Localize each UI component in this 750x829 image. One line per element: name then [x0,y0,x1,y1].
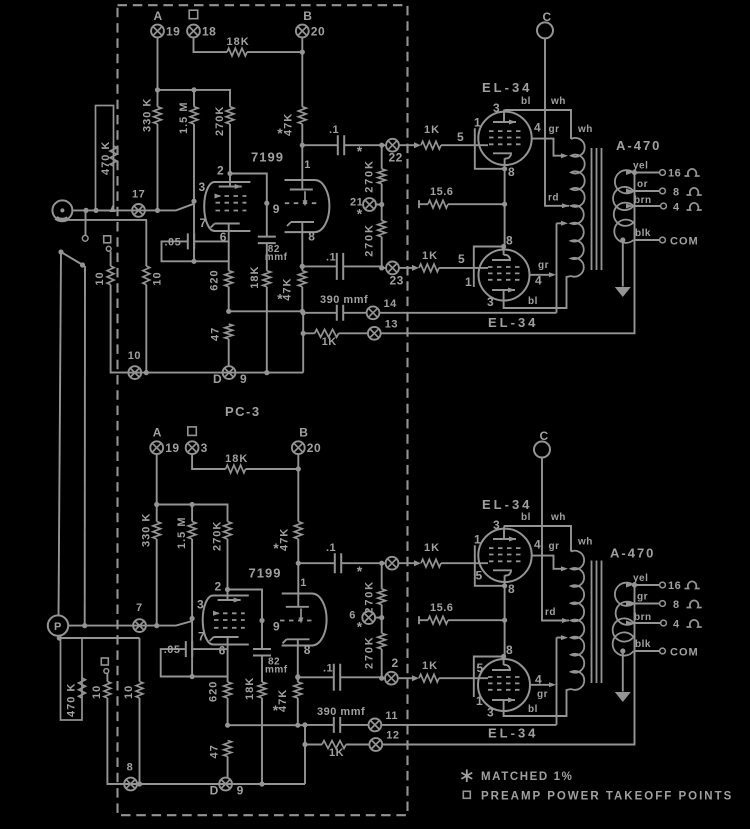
svg-text:10: 10 [91,685,103,699]
wire terminal B down [297,454,299,521]
svg-text:19: 19 [165,441,179,455]
wire switch bus right [84,266,86,626]
svg-text:yel: yel [633,573,648,584]
tube EL-34 (lower) [479,250,530,301]
svg-text:EL-34: EL-34 [482,497,532,512]
svg-text:1: 1 [300,577,307,589]
svg-text:1: 1 [304,159,311,171]
wire 1.5M return [191,621,193,677]
svg-text:.1: .1 [329,124,339,136]
terminal C [534,442,550,458]
svg-text:17: 17 [132,189,145,201]
svg-text:bl: bl [528,296,538,307]
wire 82mmf to 18K [261,656,263,683]
wire terminal-18 to 18K [194,38,228,53]
resistor 47 [225,324,233,339]
svg-text:5: 5 [458,252,465,266]
svg-text:3: 3 [197,598,204,612]
blk tap COM [634,239,660,241]
EL34u plate [493,121,516,123]
wire .05 to cathode [194,240,229,242]
resistor 1K (feedback) [315,329,339,337]
resistor 15.6 [418,616,420,624]
svg-text:gr: gr [537,689,548,700]
EL34l plate [492,289,515,291]
svg-text:1K: 1K [424,124,440,136]
wire cathode bus [228,724,305,726]
wire lower screen to tap (gr) [530,684,553,686]
7199 pentode grid dashes [216,195,247,197]
wire 10L to bus [107,698,124,784]
svg-text:bl: bl [521,96,531,107]
input jack J1 [52,200,72,220]
terminal C [537,22,553,38]
7199 triode plate [286,563,309,607]
preamp takeoff square (top) [189,10,198,19]
EL34l suppressor tie [474,247,504,288]
wire 47 to D terminal [227,757,229,779]
svg-text:7199: 7199 [249,566,282,581]
volume pot 470K box [96,106,114,211]
wire 1.5M top [193,90,195,107]
wire upper screen to tap (gr) [531,556,565,569]
svg-text:270K: 270K [364,580,376,614]
svg-text:1: 1 [465,275,472,289]
svg-text:COM: COM [670,236,699,248]
wire upper plate to primary (bl-wh) [505,110,571,139]
svg-text:3: 3 [201,441,208,455]
svg-text:10: 10 [94,271,106,285]
or tap 8 ohm [634,603,660,605]
wire .1 lower to 23 [340,676,385,679]
tube EL-34 (lower) [478,659,530,711]
capacitor .1 (upper) [298,562,335,564]
preamp takeoff square (input) [104,236,111,243]
resistor 270K (plate) [224,522,232,540]
svg-text:3: 3 [487,295,494,309]
grid input wire [72,204,194,211]
resistor 1K (feedback) [322,741,346,749]
svg-text:8: 8 [304,643,311,657]
capacitor 390mmf [303,312,337,314]
wire cathodes [504,168,506,247]
preamp takeoff square (top) [188,427,197,436]
EL34l cathode [492,255,510,260]
svg-text:5: 5 [457,130,464,144]
wire C to center tap [545,38,569,205]
svg-text:8: 8 [673,599,680,611]
EL34u suppressor tie [475,545,505,586]
svg-text:D: D [213,372,222,386]
svg-text:270K: 270K [212,521,224,551]
svg-text:4: 4 [673,619,680,631]
svg-text:.05: .05 [165,236,182,248]
wire cathode bus [229,310,304,312]
wire A node bus [158,90,231,107]
wire to switch contact [85,210,87,235]
svg-text:620: 620 [209,269,221,290]
wire 23 to 1K [399,267,414,269]
svg-text:2: 2 [217,164,224,178]
svg-text:A-470: A-470 [616,138,661,153]
svg-text:B: B [303,9,312,23]
wire 270K to plate pin2 [229,124,231,174]
svg-text:gr: gr [549,541,560,552]
svg-text:8: 8 [308,230,315,244]
wire 47K* to bus [301,287,303,312]
capacitor 390mmf [305,724,334,726]
EL34u cathode [493,153,511,158]
svg-text:10: 10 [123,685,135,699]
wire ground column [304,725,306,784]
capacitor .1 (lower) [298,676,334,678]
resistor 15.6 [418,200,420,208]
wire 270K to plate pin2 [227,539,229,590]
wire A node bus [157,505,228,522]
svg-text:1: 1 [474,532,481,546]
yel tap 16 ohm [634,584,660,586]
EL34u suppressor tie [475,128,505,169]
svg-text:A: A [154,9,163,23]
resistor 10 (left) [106,674,108,682]
svg-text:7: 7 [136,602,143,614]
svg-text:4: 4 [534,120,541,134]
svg-text:*: * [273,702,279,718]
svg-text:18K: 18K [249,266,261,289]
capacitor .1 (upper) [302,144,338,146]
7199 triode cathode [287,222,314,233]
wire 620 to bus [228,287,230,312]
7199 triode grid dashes [285,202,318,204]
svg-text:wh: wh [550,512,566,523]
svg-text:1K: 1K [424,542,440,554]
resistor 1.5M [190,107,198,124]
svg-text:wh: wh [550,96,566,107]
wire terminal-18 to 18K [192,454,226,469]
EL34l grids [488,266,520,268]
capacitor .05 [161,649,192,676]
svg-text:8: 8 [508,582,515,596]
blk tap COM [634,650,660,652]
svg-text:1: 1 [476,694,483,708]
svg-text:PREAMP POWER TAKEOFF POINTS: PREAMP POWER TAKEOFF POINTS [481,791,733,803]
svg-text:8: 8 [506,234,513,248]
preamp takeoff square (input) [101,658,108,665]
feedback wire [381,173,635,334]
svg-text:gr: gr [549,124,560,135]
svg-text:270K: 270K [364,636,376,670]
7199 triode grid dashes [280,620,315,622]
svg-text:14: 14 [384,298,398,310]
wire C to center tap [542,458,569,621]
7199 triode cathode [283,639,310,646]
svg-text:1: 1 [474,115,481,129]
capacitor .05 [162,241,195,261]
wire terminal A down [156,454,158,504]
wire jack to grid [83,208,88,213]
terminal 23 [386,262,399,275]
svg-text:2: 2 [392,656,399,670]
resistor 47 [224,741,232,757]
svg-text:390 mmf: 390 mmf [320,294,368,306]
wire 21 node [375,605,381,634]
terminal 2 [385,672,398,685]
svg-text:6: 6 [219,644,226,658]
wire 1.5M top [191,505,193,522]
wire 330K top [157,90,159,107]
svg-text:3: 3 [487,706,494,720]
svg-text:EL-34: EL-34 [488,315,538,330]
svg-text:47K: 47K [278,528,290,551]
tube 7199 envelope (triode half) [282,594,327,646]
svg-text:9: 9 [273,202,280,216]
svg-text:47: 47 [210,327,222,341]
svg-text:A: A [153,426,162,440]
svg-text:wh: wh [577,537,593,548]
transformer core [592,148,602,270]
EL34u grids [489,130,521,132]
svg-text:2: 2 [215,580,222,594]
terminal D 9 [219,778,232,791]
svg-text:*: * [357,143,363,159]
svg-text:B: B [299,426,308,440]
svg-text:10: 10 [151,271,163,285]
svg-text:11: 11 [385,710,398,722]
svg-text:270K: 270K [364,159,376,193]
resistor 18K (top) [226,465,246,473]
svg-text:8: 8 [127,762,134,774]
terminal 22 [386,139,399,152]
svg-text:*: * [357,563,363,579]
svg-text:18K: 18K [244,677,256,700]
svg-text:A-470: A-470 [610,546,655,561]
wire 620 to bus [227,698,229,725]
svg-text:rd: rd [545,607,556,618]
wire jack shield [62,219,147,221]
resistor 620 [225,271,233,287]
resistor 47K* (cathode) [294,682,302,698]
wire 330K to grid line [156,539,158,626]
svg-text:18K: 18K [227,36,250,48]
svg-text:1K: 1K [422,660,438,672]
svg-text:*: * [357,206,363,222]
EL34l suppressor tie [474,657,504,698]
terminal 13 [368,327,381,340]
resistor 10 (right) [145,220,147,266]
svg-text:wh: wh [577,124,593,135]
svg-text:1K: 1K [422,250,438,262]
terminal [386,557,399,570]
capacitor 82mmf [266,203,268,236]
svg-text:8: 8 [506,643,513,657]
terminal 17 [132,204,145,217]
wire .1 to grid node [341,562,385,564]
transformer primary winding [571,138,585,277]
terminal 12 [369,738,382,751]
or tap 8 ohm [634,190,660,192]
wire .1 to grid node [344,144,386,146]
svg-text:rd: rd [548,192,559,203]
terminal 7 [133,619,146,632]
wire 47 to D terminal [228,339,230,367]
volume pot 470K box (ch2) [61,638,83,720]
7199 pentode grid dashes [214,612,245,614]
wire lower screen to tap (gr) [530,274,553,276]
wire 22 to 1K [399,562,416,564]
svg-text:6: 6 [349,610,356,622]
7199 pentode plate [218,590,241,601]
brn tap 4 ohm [634,205,661,207]
EL34u plate [493,538,516,540]
terminal A/19 [150,441,163,454]
wire terminal A down [157,38,159,90]
svg-text:270K: 270K [214,106,226,136]
svg-text:EL-34: EL-34 [482,80,532,95]
svg-text:10: 10 [128,350,141,362]
svg-text:MATCHED 1%: MATCHED 1% [481,771,573,783]
resistor 270K* (upper) [381,563,383,589]
wire 47K to plate node [297,539,299,563]
wire 270K to 23 node [381,237,383,268]
terminal D 9 [223,366,236,379]
svg-text:D: D [210,784,219,798]
svg-text:mmf: mmf [265,252,288,263]
capacitor .1 (lower) [302,265,337,267]
wire 270K to 23 node [381,649,383,678]
svg-text:C: C [543,10,552,24]
wire terminal B down [301,38,303,107]
wire 330K top [156,505,158,522]
wire 10R to D bus [145,285,147,373]
tube 7199 envelope (triode half) [285,180,330,232]
wire cathodes [504,585,506,656]
wire ground column [302,311,304,372]
svg-text:8: 8 [508,165,515,179]
svg-text:*: * [277,125,283,141]
svg-text:P: P [54,621,62,633]
svg-text:EL-34: EL-34 [488,726,538,741]
legend matched [461,770,472,783]
resistor 1K (upper grid) [421,141,441,149]
7199 pentode cathode [211,224,240,271]
EL34u cathode [493,570,511,575]
resistor 270K* (upper) [381,145,383,169]
resistor 270K (plate) [226,107,234,124]
svg-text:9: 9 [240,372,247,386]
svg-text:gr: gr [637,592,648,603]
svg-text:9: 9 [273,620,280,634]
terminal 8 (chassis) [124,778,137,791]
resistor 18K (top) [227,48,247,56]
svg-text:20: 20 [311,25,325,39]
svg-text:330 K: 330 K [141,513,153,547]
resistor 18K (cathode) [263,271,271,287]
7199 pentode cathode [210,637,239,682]
svg-text:22: 22 [389,151,403,165]
resistor 1K (lower grid) [419,674,439,682]
transformer secondary winding [613,170,633,243]
svg-text:blk: blk [635,639,651,650]
svg-text:1.5 M: 1.5 M [178,101,190,134]
svg-text:PC-3: PC-3 [225,404,261,419]
yel tap 16 ohm [634,172,660,174]
terminal 21 [363,198,376,211]
svg-text:.05: .05 [164,644,181,656]
svg-text:47K: 47K [282,113,294,136]
terminal B/20 [296,25,309,38]
ground [622,651,624,692]
resistor 47K (B+) [294,522,302,540]
svg-text:7: 7 [198,630,205,644]
wire D bus [107,783,305,785]
resistor 620 [224,682,232,698]
EL34u grids [489,547,521,549]
brn tap 4 ohm [634,622,661,624]
svg-text:*: * [357,618,363,634]
transformer secondary winding [613,583,634,656]
svg-text:4: 4 [673,202,680,214]
svg-text:9: 9 [237,784,244,798]
svg-text:270K: 270K [364,223,376,257]
EL34l grids [488,676,520,678]
resistor 47K* (cathode) [298,271,306,287]
tube 7199 envelope (pentode half) [203,596,249,645]
tube 7199 envelope (pentode half) [204,182,250,231]
wire 47K to plate node [301,124,303,145]
terminal 6 [362,611,375,624]
wire 21 node [376,184,382,221]
svg-text:4: 4 [534,537,541,551]
resistor 330K [153,522,161,540]
svg-text:20: 20 [307,441,321,455]
wire .1 lower to 23 [343,266,386,268]
svg-text:18: 18 [202,25,216,39]
svg-text:brn: brn [634,612,652,623]
wire lower plate to primary (bl) [504,689,571,716]
svg-text:330 K: 330 K [142,98,154,132]
svg-text:18K: 18K [225,453,248,465]
svg-text:16: 16 [668,168,681,180]
resistor 1.5M [188,522,196,540]
wire 1.5M return [193,204,195,262]
wire lower plate to primary (bl) [504,276,571,308]
wire 18K to B line [247,51,302,53]
svg-text:*: * [277,291,283,307]
switch arm [58,249,63,254]
terminal B/20 [292,441,305,454]
svg-text:3: 3 [493,101,500,115]
svg-text:12: 12 [386,730,399,742]
wire 10R to D bus [139,698,141,784]
transformer core [592,561,602,684]
svg-text:bl: bl [528,704,538,715]
wire .05 to cathode [192,648,227,650]
svg-text:bl: bl [521,512,531,523]
svg-text:470 K: 470 K [100,141,112,175]
tube EL-34 (upper) [478,112,531,165]
wire D bus [111,372,303,374]
resistor 47K (B+) [298,107,306,124]
wire 1.5M to grid node [193,124,195,201]
svg-text:1K: 1K [322,336,337,348]
svg-text:16: 16 [668,580,681,592]
svg-text:1K: 1K [329,747,344,759]
svg-text:COM: COM [670,647,699,659]
svg-text:3: 3 [493,518,500,532]
svg-text:7: 7 [200,216,207,230]
resistor 1K (lower grid) [419,264,439,272]
svg-text:brn: brn [634,195,652,206]
